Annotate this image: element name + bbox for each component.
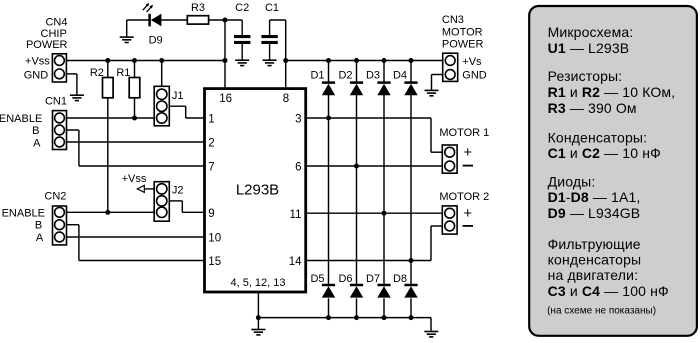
svg-text:D7: D7	[366, 273, 380, 285]
diode D4	[404, 83, 417, 96]
node D4/+Vs junction	[409, 58, 414, 63]
svg-text:8: 8	[283, 93, 289, 105]
svg-text:R1 и R2 — 10 КОм,: R1 и R2 — 10 КОм,	[548, 84, 676, 100]
node D1/+Vs junction	[326, 58, 331, 63]
svg-text:R1: R1	[116, 67, 130, 79]
node D1/pin3 junction	[326, 116, 331, 121]
svg-text:MOTOR 2: MOTOR 2	[439, 191, 489, 203]
diode D3	[377, 83, 390, 96]
svg-text:+Vss: +Vss	[25, 56, 50, 68]
svg-text:+Vs: +Vs	[462, 56, 482, 68]
svg-text:D4: D4	[393, 69, 407, 81]
svg-text:A: A	[33, 137, 41, 149]
wire CN3 GND to ground	[432, 75, 443, 91]
svg-text:C1 и C2 — 10 нФ: C1 и C2 — 10 нФ	[548, 145, 661, 161]
svg-text:16: 16	[219, 93, 232, 105]
svg-text:R3 — 390 Ом: R3 — 390 Ом	[548, 100, 637, 116]
svg-text:CN3: CN3	[442, 14, 464, 26]
wire +Vss rail (left)	[66, 60, 225, 62]
svg-text:10: 10	[208, 233, 221, 245]
svg-text:D2: D2	[338, 69, 352, 81]
wire diode column D3/D7	[383, 61, 385, 318]
wire IC pin 11 to MOTOR 2 plus	[306, 212, 443, 214]
svg-text:(на схеме не показаны): (на схеме не показаны)	[547, 305, 656, 316]
wire R1 top	[134, 61, 136, 78]
wire R3 to C2 top	[209, 19, 243, 21]
svg-text:+: +	[463, 145, 471, 161]
svg-text:MOTOR: MOTOR	[442, 26, 483, 38]
svg-text:J1: J1	[172, 90, 184, 102]
svg-text:11: 11	[290, 209, 302, 221]
svg-text:конденсаторы: конденсаторы	[548, 252, 642, 268]
wire LED to R3	[161, 19, 187, 21]
info panel box	[529, 6, 697, 336]
wire pin16 column	[224, 20, 226, 89]
svg-text:J2: J2	[172, 184, 184, 196]
capacitor C2	[234, 20, 250, 60]
svg-text:Конденсаторы:: Конденсаторы:	[548, 129, 648, 145]
svg-text:U1 — L293B: U1 — L293B	[548, 40, 630, 56]
node J1/+Vss junction	[159, 58, 164, 63]
wire ground rail (bottom)	[258, 318, 431, 332]
svg-text:D5: D5	[310, 273, 324, 285]
node D2/+Vs junction	[354, 58, 359, 63]
wire pin8 column	[285, 20, 287, 89]
MOTOR 2 minus label	[463, 225, 473, 227]
wire IC pin 6 to MOTOR 1 minus	[306, 165, 443, 167]
node pin8/+Vs junction	[283, 58, 288, 63]
diode D2	[350, 83, 363, 96]
node R2/ENABLE2 junction	[105, 210, 110, 215]
ground for C1	[263, 60, 277, 65]
diode D8	[404, 285, 417, 298]
svg-text:CN2: CN2	[44, 191, 66, 203]
node D5/ground junction	[326, 315, 331, 320]
svg-text:D9: D9	[149, 34, 163, 46]
ground for D9	[120, 37, 134, 42]
svg-text:Диоды:: Диоды:	[548, 173, 596, 189]
wire C1 top loop	[270, 19, 286, 21]
node D8/ground junction	[409, 315, 414, 320]
LED D9 emission arrows	[143, 3, 153, 12]
svg-text:POWER: POWER	[442, 39, 484, 51]
svg-text:L293B: L293B	[236, 182, 279, 199]
svg-text:GND: GND	[24, 70, 49, 82]
svg-text:14: 14	[289, 256, 302, 268]
wire ENABLE2: CN2 to J2	[67, 211, 155, 213]
ground for CN3	[425, 90, 439, 95]
wire A2: CN2 A to IC pin 10	[67, 236, 205, 238]
svg-text:D1-D8 — 1А1,: D1-D8 — 1А1,	[548, 189, 641, 205]
wire B2: CN2 B to IC pin 15	[67, 225, 205, 261]
svg-text:2: 2	[208, 138, 214, 150]
wire D9 anode to ground stub	[127, 20, 149, 37]
svg-text:4, 5, 12, 13: 4, 5, 12, 13	[230, 277, 285, 289]
svg-text:7: 7	[208, 162, 214, 174]
connector MOTOR 2	[442, 206, 457, 234]
diode D5	[322, 285, 335, 298]
node D7/ground junction	[382, 315, 387, 320]
connector CN3	[443, 53, 458, 81]
MOTOR 1 minus label	[463, 165, 473, 167]
wire J1 top to rail	[161, 61, 163, 87]
LED D9	[150, 14, 162, 27]
wire diode column D2/D6	[356, 61, 358, 318]
svg-text:B: B	[32, 125, 39, 137]
node D2/pin6 junction	[354, 164, 359, 169]
ground under IC	[251, 330, 265, 335]
svg-text:CHIP: CHIP	[41, 28, 67, 40]
svg-text:GND: GND	[462, 70, 487, 82]
wire +Vs rail (right)	[286, 60, 443, 62]
node D4/pin14 junction	[409, 258, 414, 263]
resistor R2	[103, 78, 114, 98]
svg-text:C1: C1	[265, 2, 279, 14]
wire J2 middle to IC pin 9	[169, 201, 204, 212]
wire J1 middle to IC pin 1	[169, 106, 204, 118]
svg-text:3: 3	[295, 114, 301, 126]
node pin16/+Vss junction	[223, 58, 228, 63]
svg-text:R2: R2	[90, 67, 104, 79]
node R1/ENABLE1 junction	[132, 116, 137, 121]
connector CN4	[52, 54, 66, 82]
wire IC pins 4,5,12,13 ground stub	[257, 292, 259, 330]
node D3/+Vs junction	[382, 58, 387, 63]
svg-text:C3 и C4 — 100 нФ: C3 и C4 — 100 нФ	[548, 283, 669, 299]
svg-text:A: A	[36, 232, 44, 244]
svg-text:на двигатели:: на двигатели:	[548, 267, 639, 283]
ground for CN4	[70, 95, 84, 100]
svg-text:D8: D8	[393, 273, 407, 285]
ground bottom right	[424, 332, 438, 337]
svg-text:15: 15	[208, 256, 221, 268]
svg-text:POWER: POWER	[26, 39, 68, 51]
capacitor C1	[261, 20, 277, 60]
svg-text:+Vss: +Vss	[122, 173, 147, 185]
resistor R3	[187, 16, 208, 24]
wire B1: CN1 B to IC pin 7	[67, 130, 205, 166]
wire diode column D1/D5	[328, 61, 330, 318]
svg-text:+: +	[463, 206, 471, 222]
wire ENABLE1: CN1 to J1	[67, 117, 155, 119]
jumper J1	[154, 86, 169, 126]
node D6/ground junction	[354, 315, 359, 320]
svg-text:Резисторы:: Резисторы:	[548, 68, 623, 84]
svg-text:MOTOR 1: MOTOR 1	[439, 127, 489, 139]
diode D1	[322, 83, 335, 96]
wire CN4 GND to ground	[66, 74, 77, 95]
svg-text:CN1: CN1	[45, 96, 67, 108]
wire IC pin 3 to MOTOR 1 plus	[306, 118, 443, 152]
svg-text:CN4: CN4	[45, 17, 67, 29]
connector CN2	[53, 206, 67, 245]
svg-text:Фильтрующие: Фильтрующие	[548, 236, 641, 252]
node D3/pin11 junction	[382, 211, 387, 216]
diode D6	[350, 285, 363, 298]
wire diode column D4/D8	[410, 61, 412, 318]
svg-text:6: 6	[295, 162, 301, 174]
svg-text:D6: D6	[338, 273, 352, 285]
op-amp U1 IC L293B body	[205, 89, 306, 292]
wire A1: CN1 A to IC pin 2	[67, 141, 205, 143]
node R3/pin16 junction	[223, 18, 228, 23]
svg-text:C2: C2	[235, 2, 249, 14]
wire IC pin 14 to MOTOR 2 minus	[306, 226, 443, 261]
wire J2 top +Vss stub with arrow	[137, 185, 154, 192]
node IC ground junction	[256, 315, 261, 320]
svg-text:Микросхема:: Микросхема:	[548, 24, 634, 40]
svg-text:1: 1	[208, 114, 214, 126]
svg-text:D9 — L934GB: D9 — L934GB	[548, 205, 641, 221]
wire R2 bottom to ENABLE2 net	[107, 98, 109, 213]
svg-text:9: 9	[208, 208, 214, 220]
svg-text:ENABLE: ENABLE	[2, 207, 45, 219]
jumper J2	[154, 182, 169, 222]
svg-text:ENABLE: ENABLE	[0, 113, 42, 125]
svg-text:D3: D3	[366, 69, 380, 81]
wire R1 bottom to ENABLE1 net	[134, 98, 136, 118]
diode D7	[377, 285, 390, 298]
resistor R1	[129, 78, 140, 98]
svg-text:R3: R3	[191, 2, 205, 14]
connector CN1	[53, 111, 67, 150]
node R1/+Vss junction	[132, 58, 137, 63]
wire R2 top	[107, 61, 109, 78]
svg-text:B: B	[35, 220, 42, 232]
node R2/+Vss junction	[105, 58, 110, 63]
svg-text:D1: D1	[310, 69, 324, 81]
ground for C2	[235, 60, 249, 65]
connector MOTOR 1	[442, 145, 457, 173]
